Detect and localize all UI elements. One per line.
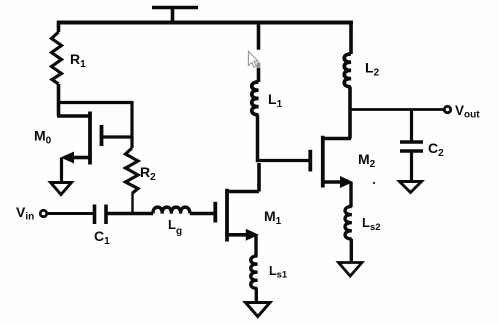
wire Ls1 to ground [255,288,258,302]
wire top supply rail [57,21,353,25]
wire M0 source to ground [60,158,63,183]
VDD supply symbol [152,8,198,23]
capacitor C2 [400,142,423,151]
mouse cursor [248,50,261,68]
ground (M0 source) [51,183,72,195]
wire M0 drain stub [57,114,90,118]
ground (Ls1) [246,303,271,317]
wire rail to R1 [57,21,61,32]
wire gate tie (node to R2 column) [57,101,133,104]
speck near M2 [373,182,375,184]
wire rail to L2 [349,21,353,54]
node Vout terminal [444,106,450,112]
wire M2 source down [349,182,352,207]
wire Lg to M1 gate [190,212,214,215]
inductor Lg [153,207,190,213]
wire Vout line [350,108,444,111]
ground (Ls2) [339,263,363,277]
wire L1 to cascode node [256,115,260,162]
wire C2 to ground [410,151,413,181]
wire R2 column [130,101,133,148]
wire Vout node to C2 [410,110,413,142]
wire cascode node to M2 gate [258,159,311,162]
wire L2 to Vout node [348,87,352,110]
wire M1 source down [254,235,257,257]
transistor M2 [310,136,353,188]
wire C1 to Lg [106,212,153,215]
wire M2 drain up to Vout node [348,110,352,139]
node Vin terminal [40,210,46,216]
inductor L2 [344,54,351,87]
wire R1 bottom to M0 drain node [57,84,61,116]
wire Ls2 to ground [350,239,353,262]
wire R2 to input line [131,194,133,214]
transistor M0 [61,112,133,165]
resistor R2 [126,148,139,194]
wire M1 drain up to cascode node [257,163,261,192]
ground (C2) [400,182,422,193]
wire rail to L1 [257,21,261,82]
inductor L1 [252,82,259,115]
wire Vin to C1 [47,212,93,215]
transistor M1 [215,189,259,242]
inductor Ls2 [345,206,352,238]
inductor Ls1 [251,256,258,288]
resistor R1 [52,32,62,84]
capacitor C1 [95,205,107,225]
